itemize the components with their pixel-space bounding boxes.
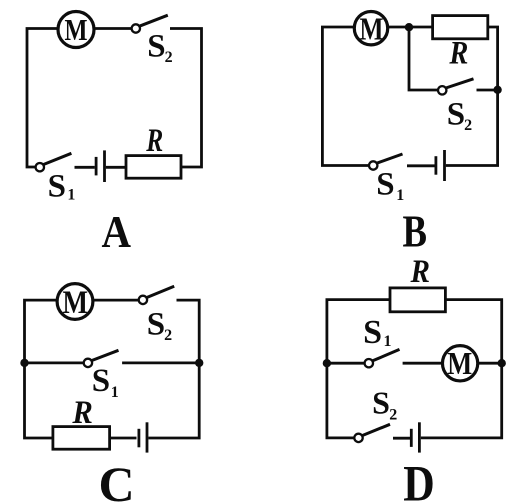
svg-text:R: R	[449, 35, 469, 71]
svg-text:S: S	[147, 29, 165, 65]
svg-text:1: 1	[67, 186, 75, 203]
svg-text:R: R	[145, 123, 163, 159]
svg-text:2: 2	[464, 117, 472, 134]
svg-text:M: M	[63, 285, 89, 321]
svg-text:A: A	[102, 206, 132, 257]
svg-text:R: R	[410, 254, 430, 290]
svg-text:R: R	[71, 395, 92, 431]
svg-text:M: M	[65, 12, 88, 47]
svg-text:S: S	[376, 167, 394, 203]
svg-text:S: S	[147, 307, 165, 343]
svg-text:S: S	[363, 314, 382, 351]
svg-text:2: 2	[164, 327, 172, 344]
svg-text:2: 2	[389, 406, 397, 423]
svg-text:M: M	[360, 11, 384, 47]
svg-text:S: S	[447, 97, 465, 133]
svg-text:M: M	[447, 345, 472, 381]
svg-text:S: S	[92, 363, 110, 399]
svg-text:S: S	[372, 384, 390, 420]
svg-text:1: 1	[384, 333, 392, 350]
svg-text:1: 1	[396, 187, 404, 204]
svg-text:D: D	[403, 456, 435, 504]
svg-text:2: 2	[165, 49, 173, 66]
svg-text:B: B	[402, 205, 427, 256]
svg-text:S: S	[48, 169, 66, 205]
svg-text:1: 1	[111, 384, 119, 401]
svg-text:C: C	[99, 456, 135, 504]
